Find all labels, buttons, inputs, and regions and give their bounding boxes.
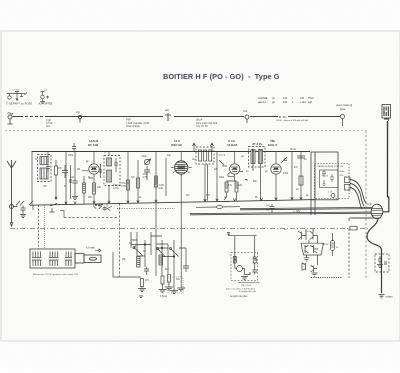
svg-text:12 BA6: 12 BA6 — [227, 143, 238, 147]
svg-text:M. 2%: M. 2% — [279, 115, 287, 119]
svg-text:trous charge: trous charge — [126, 125, 141, 128]
svg-text:220p: 220p — [142, 156, 148, 158]
svg-text:AJ.PORTEE: AJ.PORTEE — [39, 103, 53, 106]
svg-text:1M: 1M — [77, 169, 80, 171]
svg-text:240: 240 — [300, 97, 305, 100]
svg-text:2 LT: 2 LT — [328, 192, 333, 194]
svg-text:+124: +124 — [300, 101, 306, 104]
svg-text:PILOT 6V: PILOT 6V — [242, 285, 252, 287]
svg-text:4T 2 2y: 4T 2 2y — [252, 142, 263, 146]
svg-text:Bobines osc. PO-GO gammes swit: Bobines osc. PO-GO gammes switch rotact.… — [33, 273, 79, 276]
svg-text:GO: GO — [43, 186, 47, 188]
svg-text:2N706: 2N706 — [322, 244, 329, 246]
svg-text:78u0: 78u0 — [308, 97, 314, 100]
svg-text:adj: adj — [165, 108, 169, 112]
svg-text:masse: masse — [386, 296, 394, 299]
svg-text:EF 41B: EF 41B — [88, 143, 99, 147]
svg-text:mm ch. 30: mm ch. 30 — [196, 125, 208, 128]
svg-text:220: 220 — [159, 187, 164, 190]
svg-text:1k5: 1k5 — [238, 184, 243, 187]
svg-text:4T70: 4T70 — [121, 185, 127, 188]
svg-text:PT 47: PT 47 — [322, 176, 329, 178]
svg-text:+ 12V: + 12V — [293, 209, 301, 213]
svg-text:CADRE BLINDE: CADRE BLINDE — [317, 165, 334, 168]
svg-text:F. DEPART ou ROSE: F. DEPART ou ROSE — [6, 103, 32, 106]
svg-text:25V: 25V — [266, 210, 270, 212]
svg-text:kg0: kg0 — [308, 101, 313, 104]
svg-text:C V 2: C V 2 — [219, 154, 226, 157]
svg-text:gamme: gamme — [258, 101, 267, 104]
svg-text:au boitier de colis: au boitier de colis — [239, 290, 257, 293]
svg-text:160: 160 — [283, 101, 288, 104]
svg-text:prise: prise — [340, 108, 346, 111]
svg-text:prise 1 au tolva m 623 fixatio: prise 1 au tolva m 623 fixation — [226, 287, 256, 290]
svg-text:tren: tren — [46, 125, 51, 128]
svg-text:ECH 3: ECH 3 — [268, 143, 277, 147]
svg-text:BOITIER H F (PO - GO) - Type: BOITIER H F (PO - GO) - Type G — [163, 72, 280, 81]
svg-text:3F 2u: 3F 2u — [290, 148, 297, 151]
svg-text:COM. HF: COM. HF — [334, 166, 344, 168]
svg-text:47TG: 47TG — [113, 187, 119, 190]
svg-text:b 5mA: b 5mA — [160, 295, 167, 298]
svg-text:(avec relais aj): (avec relais aj) — [336, 104, 352, 107]
svg-text:AJ relais: AJ relais — [86, 247, 96, 250]
svg-text:CM 41 chacun d 700 mH mW: CM 41 chacun d 700 mH mW pB — [276, 120, 309, 122]
svg-text:100p: 100p — [68, 155, 74, 157]
svg-text:4T5: 4T5 — [143, 176, 148, 179]
svg-text:410: 410 — [283, 97, 288, 100]
svg-text:au point de piles: au point de piles — [230, 295, 248, 298]
svg-text:100p: 100p — [219, 177, 225, 179]
svg-text:1nF: 1nF — [70, 176, 75, 179]
svg-text:GAMME: GAMME — [258, 97, 268, 100]
svg-text:tur 500: tur 500 — [13, 89, 20, 92]
svg-text:470k: 470k — [283, 173, 289, 175]
svg-text:OSC 92: OSC 92 — [171, 143, 182, 147]
svg-text:Cpr: Cpr — [76, 110, 80, 114]
svg-text:Cv1: Cv1 — [243, 109, 248, 113]
